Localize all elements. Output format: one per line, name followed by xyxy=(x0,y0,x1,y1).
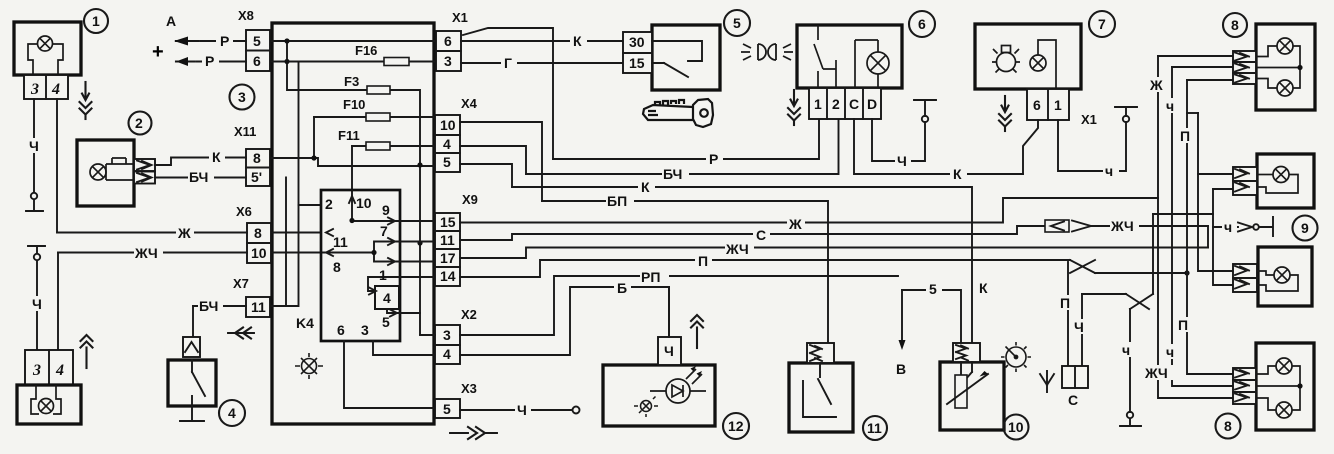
svg-text:8: 8 xyxy=(1231,17,1239,33)
svg-text:8: 8 xyxy=(1224,418,1232,434)
